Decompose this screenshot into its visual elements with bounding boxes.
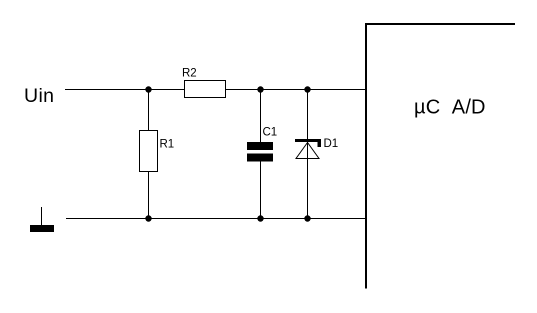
resistor R2 [185, 81, 226, 98]
wire top rail (Uin to µC box) [65, 89, 366, 91]
junction dot top R1 [145, 86, 151, 92]
wire C1 vertical upper [260, 90, 262, 143]
capacitor C1 [247, 142, 273, 162]
resistor R1 [140, 131, 158, 172]
svg-text:µC A/D: µC A/D [414, 96, 486, 118]
svg-text:R1: R1 [160, 138, 175, 150]
µC box outline [366, 24, 515, 289]
svg-text:D1: D1 [324, 138, 339, 150]
ground [30, 207, 54, 232]
wire R1 vertical lower [148, 172, 150, 219]
svg-text:Uin: Uin [24, 85, 54, 107]
junction dot bottom C1 [257, 215, 263, 221]
wire C1 vertical lower [260, 162, 262, 219]
wire bottom rail (ground to µC box) [66, 218, 366, 220]
junction dot bottom R1 [145, 215, 151, 221]
wire D1 vertical [307, 90, 309, 219]
svg-text:R2: R2 [182, 67, 197, 79]
junction dot top D1 [304, 86, 310, 92]
junction dot bottom D1 [304, 215, 310, 221]
svg-text:C1: C1 [263, 127, 278, 139]
diode D1 (zener) [295, 139, 321, 159]
junction dot top C1 [257, 86, 263, 92]
wire R1 vertical upper [148, 90, 150, 131]
